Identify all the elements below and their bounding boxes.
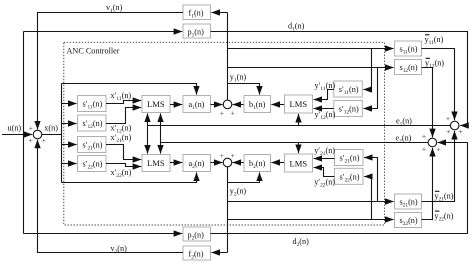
wire y'22 to LMS2R bbox=[314, 168, 335, 177]
wire u(n) input bbox=[2, 134, 32, 136]
wire y'11 to LMS1R bbox=[314, 90, 334, 100]
svg-text:y′12(n): y′12(n) bbox=[315, 110, 336, 121]
svg-text:x′22(n): x′22(n) bbox=[111, 168, 132, 179]
adaptive filter a2 bbox=[183, 155, 211, 172]
svg-text:y2(n): y2(n) bbox=[230, 187, 247, 198]
svg-text:u(n): u(n) bbox=[8, 123, 22, 132]
svg-text:y1(n): y1(n) bbox=[230, 73, 247, 84]
wire u to p2 bbox=[24, 233, 183, 235]
wire y1 to f1 bbox=[211, 12, 227, 14]
wire y'12 to LMS1R bbox=[314, 108, 334, 110]
wire x(n) from junction to distribution node bbox=[42, 134, 62, 136]
svg-text:+: + bbox=[220, 109, 224, 118]
svg-text:LMS: LMS bbox=[147, 158, 165, 168]
wire tap to s'12 right bbox=[363, 68, 377, 109]
wire v2 from f2 to u junction bbox=[38, 140, 184, 253]
wire b2 to y2 junction bbox=[233, 162, 244, 164]
wire e1 up into LMS1 bbox=[147, 113, 149, 125]
wire LMS2 to a2 bbox=[170, 162, 182, 164]
svg-text:+: + bbox=[29, 124, 33, 133]
svg-text:LMS: LMS bbox=[290, 159, 308, 169]
wire ybar12 from s12 to e2 junction bbox=[422, 68, 433, 138]
wire tap to s'21 right bbox=[364, 158, 377, 202]
wire x stub to s'22 bbox=[62, 163, 77, 165]
wire a1 to y1 junction bbox=[211, 104, 223, 106]
svg-text:+: + bbox=[422, 144, 426, 153]
summing junction y2 bbox=[223, 158, 232, 167]
wire x distribution vertical bbox=[61, 84, 63, 183]
summing junction u bbox=[33, 130, 42, 139]
wire e2 down into LMS2R bbox=[298, 143, 300, 154]
wire u to p1 bbox=[24, 31, 183, 33]
wire ybar21 from s21 to e1 junction bbox=[422, 131, 455, 202]
svg-text:d1(n): d1(n) bbox=[288, 21, 305, 32]
filter box s'11 left bbox=[78, 96, 107, 112]
svg-text:x(n): x(n) bbox=[44, 124, 58, 133]
svg-text:y21(n): y21(n) bbox=[434, 192, 453, 203]
svg-text:+: + bbox=[436, 144, 440, 153]
wire y2 to f2 bbox=[211, 252, 227, 254]
control filter b1 bbox=[244, 96, 271, 113]
wire ybar22 from s22 to e2 junction bbox=[422, 148, 433, 220]
svg-text:y22(n): y22(n) bbox=[434, 211, 453, 222]
svg-text:y′22(n): y′22(n) bbox=[314, 177, 335, 188]
svg-text:y′11(n): y′11(n) bbox=[315, 81, 336, 92]
label ybar12(n) bbox=[425, 58, 444, 69]
summing junction y1 bbox=[223, 100, 232, 109]
wire y1 branch to s11 bbox=[228, 48, 394, 50]
wire e1 up into LMS1R bbox=[298, 114, 300, 126]
wire y'21 to LMS2R bbox=[314, 158, 335, 160]
wire tap to s'22 right bbox=[364, 177, 371, 220]
svg-text:LMS: LMS bbox=[147, 99, 165, 109]
svg-text:LMS: LMS bbox=[290, 99, 308, 109]
wire LMS2R to b2 bbox=[271, 162, 284, 164]
summing junction e2 bbox=[428, 138, 437, 147]
secondary path s22 bbox=[395, 213, 422, 228]
wire y2 branch to s22 bbox=[228, 219, 394, 221]
wire x'12 to LMS1 bbox=[106, 108, 141, 124]
wire e2 to LMS blocks bbox=[161, 142, 429, 144]
wire y2 branch to s21 bbox=[228, 201, 394, 203]
label ybar11(n) bbox=[425, 35, 444, 46]
wire y1 branch to s12 bbox=[228, 67, 394, 69]
svg-text:d2(n): d2(n) bbox=[293, 237, 310, 248]
filter box s'12 left bbox=[78, 115, 107, 131]
svg-text:+: + bbox=[220, 151, 224, 160]
LMS box bottom-right bbox=[285, 154, 313, 172]
svg-text:+: + bbox=[446, 114, 450, 123]
primary path p1 bbox=[183, 24, 211, 38]
svg-text:+: + bbox=[446, 127, 450, 136]
wire x'11 to LMS1 bbox=[106, 101, 141, 104]
wire tap to s'11 right bbox=[363, 49, 371, 90]
wire LMS1 to a1 bbox=[170, 104, 182, 106]
wire b1 to y1 junction bbox=[233, 104, 244, 106]
wire LMS1R to b1 bbox=[271, 104, 284, 106]
wire v1 from f1 to u junction bbox=[38, 13, 184, 130]
wire e2 up into LMS1 bbox=[160, 113, 162, 142]
svg-text:+: + bbox=[231, 151, 235, 160]
primary path p2 bbox=[183, 227, 211, 241]
wire y1 branch to b1 bbox=[228, 84, 260, 95]
label ybar21(n) bbox=[434, 191, 453, 202]
wire x stub to s'11 bbox=[62, 103, 77, 105]
wire y2 branch to b2 bbox=[228, 172, 260, 182]
model box s'22 right bbox=[335, 168, 364, 184]
svg-text:+: + bbox=[29, 136, 33, 145]
svg-text:+: + bbox=[458, 127, 462, 136]
wire y2 vertical down bbox=[227, 167, 229, 253]
wire x stub to s'21 bbox=[62, 144, 77, 146]
svg-text:+: + bbox=[231, 109, 235, 118]
wire e1 down into LMS2 bbox=[147, 126, 149, 154]
wire ybar11 from s11 to e1 junction bbox=[422, 49, 455, 121]
model box s'12 right bbox=[334, 101, 363, 117]
secondary path s21 bbox=[395, 194, 422, 209]
control filter b2 bbox=[244, 155, 271, 172]
wire a2 to y2 junction bbox=[211, 162, 223, 164]
secondary path s11 bbox=[395, 41, 422, 56]
summing junction e1 bbox=[450, 121, 459, 130]
wire u tap vertical for p1 p2 bbox=[23, 32, 25, 234]
ANC Controller dashed box bbox=[64, 42, 385, 225]
svg-text:+: + bbox=[422, 131, 426, 140]
feedback filter f1 bbox=[183, 5, 211, 20]
svg-text:y′21(n): y′21(n) bbox=[314, 146, 335, 157]
adaptive filter a1 bbox=[183, 96, 211, 113]
wire x stub to s'12 bbox=[62, 123, 77, 125]
LMS box bottom-left bbox=[142, 155, 170, 172]
label ybar22(n) bbox=[434, 211, 453, 222]
wire e1 to LMS blocks bbox=[148, 125, 451, 127]
wire y1 vertical up bbox=[227, 13, 229, 101]
wire d2 from p2 to e2 junction bbox=[211, 143, 468, 234]
feedback filter f2 bbox=[183, 246, 211, 260]
svg-text:v2(n): v2(n) bbox=[111, 244, 128, 255]
svg-text:ANC Controller: ANC Controller bbox=[67, 47, 120, 56]
svg-text:x′21(n): x′21(n) bbox=[111, 133, 132, 144]
wire d1 from p1 to e1 junction bbox=[211, 32, 468, 126]
LMS box top-left bbox=[142, 96, 170, 113]
filter box s'21 left bbox=[78, 137, 107, 153]
secondary path s12 bbox=[395, 60, 422, 75]
wire x'22 to LMS2 bbox=[106, 164, 141, 167]
filter box s'22 left bbox=[78, 156, 107, 172]
svg-text:y11(n): y11(n) bbox=[425, 35, 444, 46]
wire e2 down into LMS2 bbox=[160, 143, 162, 154]
model box s'21 right bbox=[335, 150, 364, 166]
model box s'11 right bbox=[334, 81, 363, 97]
wire x feed to a1 bbox=[62, 84, 197, 95]
LMS box top-right bbox=[285, 95, 313, 113]
wire x feed to a2 bbox=[62, 172, 197, 182]
wire x'21 to LMS2 bbox=[106, 145, 141, 160]
svg-text:+: + bbox=[42, 136, 46, 145]
